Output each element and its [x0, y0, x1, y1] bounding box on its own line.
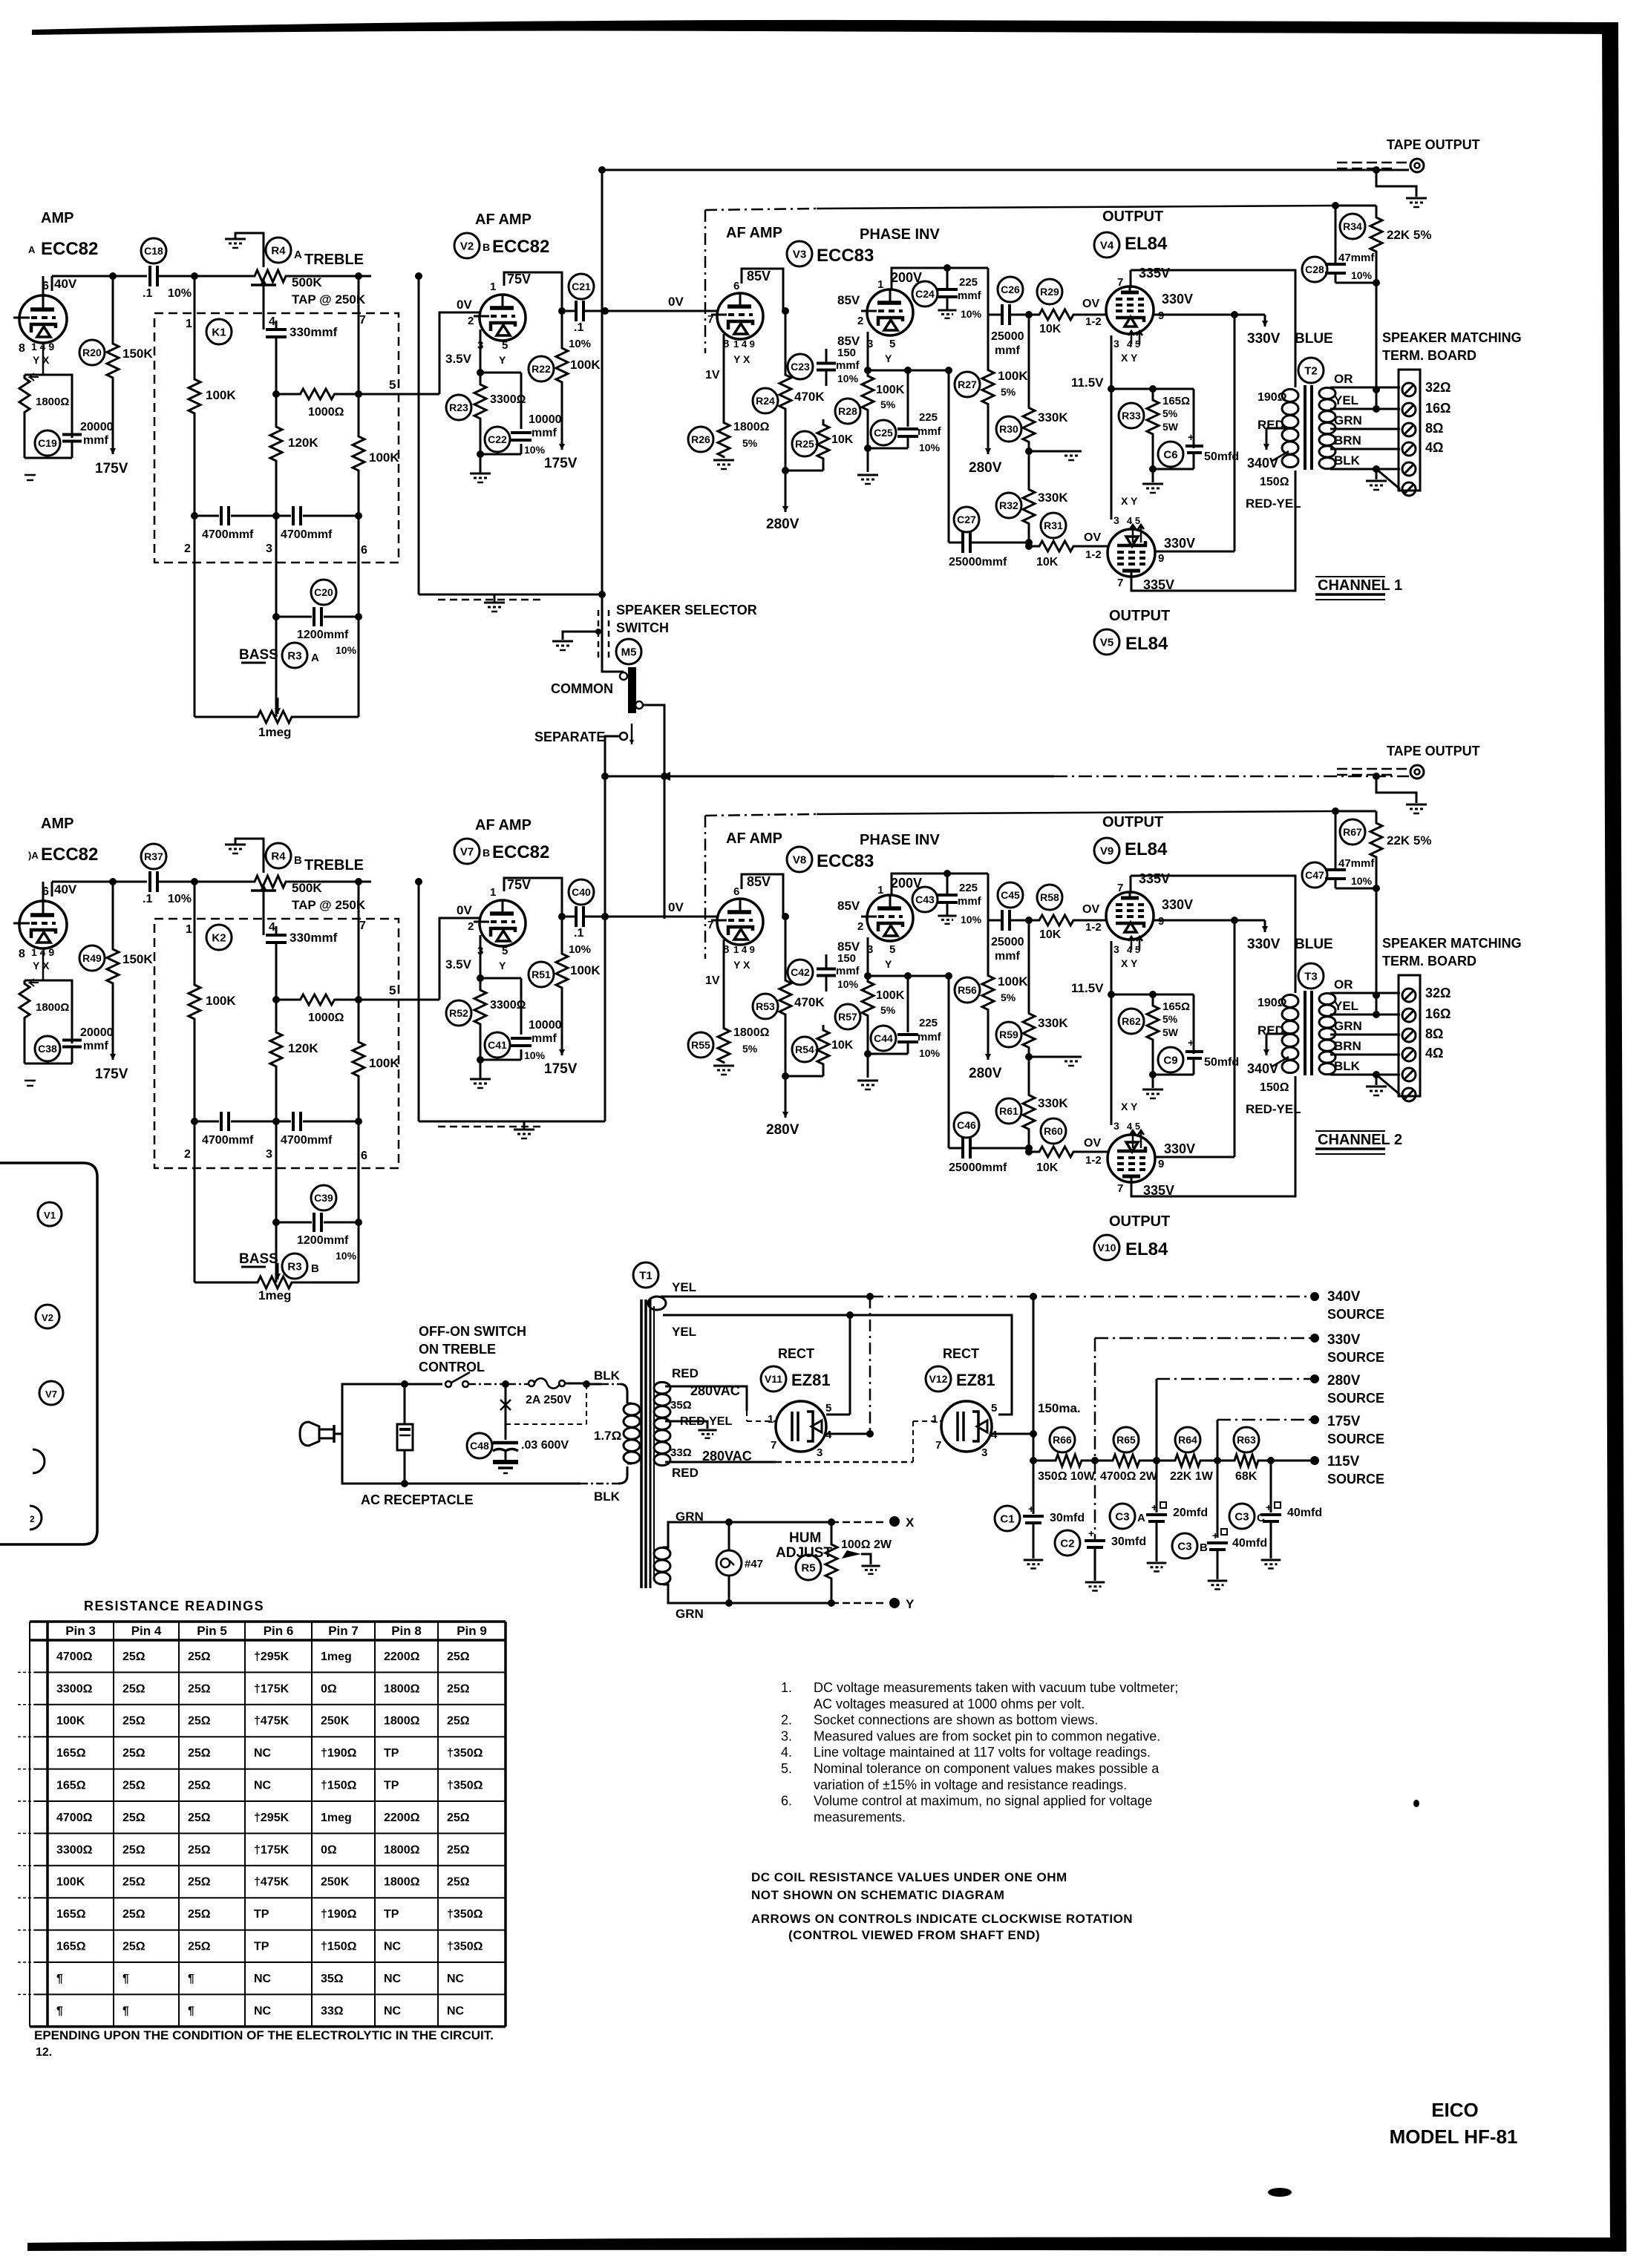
- svg-text:NC: NC: [254, 1780, 272, 1792]
- svg-text:V4: V4: [1100, 239, 1114, 252]
- svg-text:R56: R56: [958, 984, 977, 996]
- right border bar: [1602, 22, 1626, 2252]
- svg-text:C19: C19: [38, 437, 57, 449]
- svg-text:25Ω: 25Ω: [122, 1843, 145, 1856]
- svg-text:25Ω: 25Ω: [122, 1682, 145, 1695]
- capacitor 4700mmf (right): [276, 1121, 291, 1123]
- svg-text:B: B: [483, 241, 490, 253]
- wire V5 plate loop to transformer bottom: [1131, 471, 1295, 591]
- svg-text:1800Ω: 1800Ω: [36, 396, 69, 408]
- svg-text:R3: R3: [287, 1260, 301, 1273]
- svg-text:variation of ±15% in voltage a: variation of ±15% in voltage and resista…: [814, 1777, 1127, 1792]
- svg-text:190Ω: 190Ω: [1258, 391, 1287, 404]
- arrow to 175V: [112, 416, 114, 454]
- center tap RED-YEL + ground: [665, 1421, 707, 1429]
- svg-text:Y: Y: [499, 354, 506, 366]
- svg-text:165Ω: 165Ω: [56, 1747, 86, 1760]
- svg-text:C39: C39: [314, 1192, 333, 1204]
- svg-text:ECC82: ECC82: [492, 842, 549, 862]
- svg-text:10%: 10%: [336, 1250, 357, 1262]
- svg-text:TAPE OUTPUT: TAPE OUTPUT: [1387, 744, 1480, 758]
- svg-text:R55: R55: [691, 1039, 710, 1051]
- bottom border bar: [27, 2237, 1626, 2252]
- 340V rail: [870, 1296, 1315, 1298]
- wire pin1 leg: [194, 276, 196, 377]
- svg-text:TP: TP: [254, 1908, 269, 1921]
- switch M5 ref: [616, 639, 641, 664]
- X fuse marker: [500, 1400, 511, 1410]
- dashed link fuse to treble switch: [506, 1423, 586, 1425]
- svg-text:M5: M5: [621, 646, 637, 658]
- svg-text:+: +: [1188, 431, 1194, 444]
- svg-text:22K 5%: 22K 5%: [1387, 228, 1431, 242]
- resistor R59 330K: [1028, 920, 1030, 1010]
- svg-text:AMP: AMP: [41, 210, 73, 226]
- svg-text:C40: C40: [572, 886, 591, 898]
- svg-text:¶: ¶: [56, 2005, 63, 2017]
- svg-text:25Ω: 25Ω: [447, 1812, 470, 1824]
- svg-text:+: +: [1088, 1527, 1094, 1539]
- svg-text:ECC82: ECC82: [492, 237, 549, 257]
- svg-text:C27: C27: [957, 514, 976, 525]
- svg-text:100K: 100K: [206, 388, 236, 402]
- T1 core: [640, 1299, 643, 1588]
- arrow to 175V: [112, 1021, 114, 1060]
- svg-text:5: 5: [502, 945, 508, 957]
- svg-text:25Ω: 25Ω: [122, 1812, 145, 1824]
- resistor R52 3300&#937;: [474, 978, 486, 1036]
- svg-text:330V: 330V: [1164, 1141, 1195, 1156]
- svg-text:100K: 100K: [570, 963, 601, 977]
- svg-text:11.5V: 11.5V: [1071, 376, 1104, 390]
- svg-text:OR: OR: [1334, 977, 1353, 992]
- phase inv cathode network: [867, 332, 869, 370]
- svg-text:470K: 470K: [794, 390, 825, 404]
- tap wire to 6th terminal + ground: [1373, 465, 1380, 473]
- svg-text:SOURCE: SOURCE: [1327, 1432, 1384, 1446]
- svg-text:5: 5: [889, 338, 895, 350]
- svg-text:mmf: mmf: [995, 344, 1020, 357]
- svg-text:B: B: [294, 854, 302, 867]
- svg-text:5%: 5%: [742, 437, 758, 449]
- svg-text:10%: 10%: [524, 444, 546, 456]
- svg-text:6.: 6.: [781, 1794, 792, 1809]
- potentiometer R4 B TREBLE 500K: [251, 876, 290, 888]
- svg-text:340V: 340V: [1247, 1061, 1278, 1076]
- svg-text:mmf: mmf: [836, 965, 860, 977]
- svg-text:.1: .1: [574, 321, 583, 334]
- svg-text:OUTPUT: OUTPUT: [1109, 608, 1170, 624]
- svg-text:330mmf: 330mmf: [290, 325, 338, 339]
- svg-text:10K: 10K: [831, 433, 854, 446]
- svg-text:165Ω: 165Ω: [1162, 395, 1190, 407]
- screen bus vertical: [1234, 920, 1236, 1157]
- svg-text:(CONTROL VIEWED FROM SHAFT: (CONTROL VIEWED FROM SHAFT END): [788, 1928, 1040, 1942]
- primary center tap RED 340V: [1266, 1033, 1289, 1035]
- svg-text:25Ω: 25Ω: [122, 1876, 145, 1889]
- svg-text:X Y: X Y: [1121, 957, 1138, 969]
- svg-text:mmf: mmf: [918, 425, 942, 438]
- secondary tap BRN: [1330, 1054, 1400, 1056]
- primary center tap RED 340V: [1266, 427, 1289, 430]
- svg-text:OFF-ON SWITCH: OFF-ON SWITCH: [419, 1324, 526, 1339]
- svg-text:330K: 330K: [1038, 1096, 1068, 1110]
- cathode bus to lower tube: [1111, 994, 1113, 1125]
- svg-text:100K: 100K: [56, 1715, 85, 1728]
- svg-text:Pin 7: Pin 7: [328, 1624, 359, 1638]
- svg-text:OUTPUT: OUTPUT: [1102, 209, 1163, 225]
- resistor R65 4700ohm 2W: [1109, 1455, 1143, 1466]
- wire V4 plate stub: [1130, 270, 1132, 288]
- svg-text:RED-YEL: RED-YEL: [1246, 1102, 1301, 1116]
- svg-text:7: 7: [707, 919, 713, 931]
- GRN top wire to X: [663, 1522, 831, 1547]
- svg-text:+: +: [1212, 1530, 1218, 1541]
- svg-text:280V: 280V: [766, 517, 799, 532]
- cathode bottom wire + ground: [868, 448, 908, 450]
- svg-text:1: 1: [768, 1413, 774, 1426]
- filter capacitor C3A 20mfd: [1156, 1461, 1157, 1510]
- tape terminal ground loop: [1373, 773, 1380, 780]
- svg-text:mmf: mmf: [83, 434, 108, 447]
- resistor R63 68K: [1231, 1455, 1262, 1466]
- wire input cathode into jack box: [42, 951, 45, 980]
- wire input plate to C18 / treble bus: [42, 276, 45, 295]
- svg-text:C46: C46: [957, 1119, 976, 1131]
- svg-text:CHANNEL 2: CHANNEL 2: [1318, 1132, 1402, 1148]
- svg-text:2A 250V: 2A 250V: [526, 1394, 572, 1406]
- svg-text:25Ω: 25Ω: [122, 1747, 145, 1760]
- svg-text:C3: C3: [1234, 1510, 1249, 1523]
- svg-text:5%: 5%: [1162, 407, 1178, 419]
- svg-text:OUTPUT: OUTPUT: [1109, 1213, 1170, 1230]
- resistor 100K (K-net pin1): [189, 983, 200, 1021]
- wire bottom BLK: [405, 1483, 581, 1485]
- svg-text:4: 4: [269, 921, 275, 934]
- capacitor C46 25000mmf (bottom coupling): [1028, 1148, 1030, 1152]
- svg-text:R54: R54: [795, 1043, 814, 1055]
- svg-text:4700Ω 2W: 4700Ω 2W: [1100, 1470, 1158, 1483]
- svg-text:Pin 8: Pin 8: [391, 1624, 422, 1638]
- svg-text:25Ω: 25Ω: [188, 1715, 211, 1728]
- tube V11 EZ81 rectifier: [776, 1401, 826, 1452]
- svg-text:EL84: EL84: [1125, 234, 1168, 254]
- svg-text:470K: 470K: [794, 995, 825, 1009]
- svg-text:R53: R53: [756, 1000, 775, 1012]
- resistor 1800&#937; (input, cut): [19, 980, 30, 1021]
- svg-text:190Ω: 190Ω: [1258, 997, 1287, 1009]
- svg-text:20mfd: 20mfd: [1173, 1507, 1208, 1519]
- arrow to 175V (V2B): [561, 386, 563, 450]
- resistor R55 1800&#937; 5%: [718, 1027, 730, 1063]
- svg-text:RED-YEL: RED-YEL: [1246, 496, 1301, 511]
- svg-text:1.7Ω: 1.7Ω: [594, 1429, 621, 1443]
- svg-text:Y: Y: [499, 960, 506, 971]
- svg-text:R25: R25: [795, 438, 814, 450]
- T1 YEL winding (heater): [648, 1297, 666, 1310]
- svg-text:RECT: RECT: [778, 1346, 814, 1361]
- svg-text:4700mmf: 4700mmf: [281, 1134, 333, 1147]
- svg-text:A: A: [1137, 1512, 1145, 1524]
- ground (V3 cathode): [713, 1065, 734, 1067]
- wires down to bass network: [194, 516, 196, 717]
- svg-text:6: 6: [733, 280, 739, 292]
- secondary tap OR: [1330, 387, 1400, 389]
- svg-text:R52: R52: [449, 1007, 468, 1019]
- svg-text:EL84: EL84: [1125, 839, 1168, 859]
- svg-text:C44: C44: [874, 1032, 893, 1044]
- transformer T3 (output): [1298, 963, 1324, 989]
- svg-text:Y X: Y X: [733, 353, 750, 365]
- capacitor C22 10000mmf: [520, 373, 523, 429]
- tube circle V7: [39, 1381, 63, 1405]
- svg-text:85V: 85V: [837, 334, 860, 348]
- svg-text:330V: 330V: [1162, 292, 1193, 307]
- svg-text:T3: T3: [1304, 970, 1318, 983]
- svg-text:120K: 120K: [288, 1041, 318, 1055]
- svg-text:5%: 5%: [742, 1043, 758, 1055]
- svg-text:100K: 100K: [876, 384, 905, 396]
- svg-text:X Y: X Y: [1121, 495, 1138, 507]
- svg-text:165Ω: 165Ω: [56, 1941, 86, 1953]
- svg-text:C21: C21: [572, 281, 591, 292]
- wire separate contact to ch2 junction: [605, 736, 620, 776]
- svg-text:R3: R3: [287, 649, 301, 662]
- tube V6A ECC82 (input AF amp, cut at page edge): [19, 901, 67, 948]
- svg-text:1: 1: [186, 318, 192, 330]
- svg-text:175V: 175V: [95, 1066, 128, 1082]
- svg-text:25Ω: 25Ω: [188, 1780, 211, 1792]
- svg-text:25000: 25000: [991, 936, 1024, 948]
- capacitor 330mmf: [275, 926, 277, 931]
- svg-text:25Ω: 25Ω: [447, 1651, 470, 1663]
- svg-text:C38: C38: [38, 1043, 57, 1055]
- svg-text:100K: 100K: [56, 1876, 85, 1889]
- svg-text:330K: 330K: [1038, 410, 1068, 425]
- tube circle V1: [38, 1202, 62, 1226]
- GRN bottom wire to Y: [663, 1584, 831, 1603]
- svg-text:340V: 340V: [1327, 1289, 1361, 1305]
- tube V9 EL84 upper output pentode: [1106, 892, 1154, 940]
- svg-text:BRN: BRN: [1334, 1039, 1361, 1053]
- svg-text:85V: 85V: [747, 874, 771, 889]
- svg-text:30mfd: 30mfd: [1111, 1536, 1146, 1548]
- wire pin7 leg: [358, 276, 360, 434]
- svg-text:TERM. BOARD: TERM. BOARD: [1382, 954, 1476, 969]
- svg-text:32Ω: 32Ω: [1425, 986, 1451, 1000]
- capacitor C21 .1 10%: [575, 301, 578, 321]
- svg-text:DC COIL RESISTANCE VALUES: DC COIL RESISTANCE VALUES UNDER ONE OHM: [751, 1870, 1067, 1884]
- svg-text:R26: R26: [691, 433, 710, 445]
- svg-text:+: +: [1151, 1501, 1157, 1513]
- svg-text:†350Ω: †350Ω: [447, 1747, 483, 1760]
- svg-text:Pin 9: Pin 9: [457, 1624, 487, 1638]
- svg-text:3: 3: [266, 1148, 272, 1161]
- treble bus wire: [157, 881, 251, 883]
- svg-text:35Ω: 35Ω: [321, 1973, 344, 1985]
- svg-text:X Y: X Y: [1121, 352, 1138, 364]
- svg-text:85V: 85V: [837, 293, 860, 307]
- svg-text:330V: 330V: [1327, 1332, 1361, 1348]
- T1 HV secondary RED/280VAC: [654, 1382, 670, 1393]
- svg-text:85V: 85V: [837, 899, 860, 913]
- svg-text:TP: TP: [384, 1908, 399, 1921]
- svg-text:100K: 100K: [998, 974, 1028, 989]
- svg-text:AF AMP: AF AMP: [726, 225, 782, 241]
- svg-text:BRN: BRN: [1334, 433, 1361, 448]
- svg-text:V1: V1: [44, 1210, 56, 1221]
- svg-text:C26: C26: [1001, 283, 1020, 295]
- svg-text:R32: R32: [999, 499, 1018, 511]
- 280VAC top wire: [665, 1386, 747, 1411]
- svg-text:225: 225: [919, 411, 938, 424]
- svg-text:10%: 10%: [168, 287, 192, 300]
- resistor R51 100K (plate load): [556, 917, 568, 992]
- svg-text:100Ω 2W: 100Ω 2W: [841, 1538, 892, 1551]
- svg-text:1-2: 1-2: [1085, 921, 1102, 934]
- svg-text:120K: 120K: [288, 436, 318, 450]
- svg-text:25Ω: 25Ω: [188, 1812, 211, 1824]
- capacitor C48 .03 600V: [502, 1380, 509, 1388]
- svg-text:1200mmf: 1200mmf: [297, 1234, 349, 1247]
- svg-text:V2: V2: [460, 240, 474, 252]
- capacitor C38 20000mmf: [24, 980, 72, 1043]
- svg-text:R22: R22: [532, 363, 551, 375]
- arrow 330V stub: [1234, 314, 1265, 316]
- resistor R23 3300&#937;: [474, 373, 486, 430]
- divider mid + ground wire: [1025, 1053, 1033, 1061]
- tube V1A ECC82 (input AF amp, cut at page edge): [19, 295, 67, 343]
- svg-text:R34: R34: [1343, 220, 1362, 232]
- svg-text:8Ω: 8Ω: [1425, 421, 1443, 436]
- svg-text:25Ω: 25Ω: [188, 1682, 211, 1695]
- svg-text:330V: 330V: [1164, 536, 1195, 551]
- svg-text:V10: V10: [1098, 1242, 1116, 1253]
- svg-text:7: 7: [1117, 276, 1123, 289]
- capacitor C18 .1 10%: [148, 266, 151, 286]
- svg-text:75V: 75V: [507, 272, 531, 286]
- svg-text:2: 2: [857, 920, 863, 933]
- svg-text:3: 3: [1113, 514, 1119, 526]
- capacitor C40 .1 10%: [575, 906, 578, 927]
- terminal screw 1: [1402, 989, 1416, 1002]
- terminal screw 3: [1402, 423, 1416, 436]
- capacitor C9 50mfd (electrolytic): [1158, 1047, 1183, 1072]
- secondary tap YEL: [1330, 408, 1400, 410]
- svg-text:¶: ¶: [188, 1973, 194, 1985]
- svg-text:1-2: 1-2: [1085, 1154, 1102, 1167]
- svg-text:8: 8: [19, 948, 25, 960]
- cathode bottom + ground: [480, 453, 521, 456]
- svg-text:¶: ¶: [188, 2005, 194, 2017]
- svg-text:280V: 280V: [969, 1066, 1002, 1081]
- svg-text:C1: C1: [1000, 1512, 1014, 1525]
- capacitor 4700mmf (right): [276, 515, 291, 517]
- svg-text:330K: 330K: [1038, 1016, 1068, 1030]
- svg-text:225: 225: [959, 882, 978, 894]
- ground stub (input): [24, 1080, 36, 1082]
- resistor R26 1800&#937; 5%: [718, 422, 730, 458]
- resistor R27 100K 5%: [987, 315, 989, 367]
- tube V3 AF amp triode: [717, 293, 763, 339]
- svg-text:†475K: †475K: [254, 1715, 290, 1728]
- svg-text:V5: V5: [1100, 636, 1113, 649]
- svg-text:2: 2: [468, 315, 474, 327]
- svg-text:330V: 330V: [1247, 331, 1281, 347]
- svg-text:10%: 10%: [961, 308, 982, 320]
- svg-text:22K 1W: 22K 1W: [1170, 1470, 1214, 1483]
- wire V5 grid from R31: [1109, 1151, 1111, 1153]
- svg-text:12.: 12.: [36, 2046, 52, 2059]
- tap wire to 6th terminal + ground: [1373, 1071, 1380, 1078]
- wire coupling to AF amp grid: [605, 310, 717, 312]
- svg-text:10%: 10%: [524, 1049, 546, 1061]
- tape output line: [605, 776, 1054, 778]
- svg-text:3300Ω: 3300Ω: [56, 1843, 93, 1856]
- svg-text:SPEAKER SELECTOR: SPEAKER SELECTOR: [616, 603, 757, 617]
- svg-text:30mfd: 30mfd: [1050, 1512, 1085, 1524]
- wire V5 grid from R31: [1109, 545, 1111, 547]
- ground stub (input): [24, 474, 36, 476]
- 115V rail with dropping resistors: [1033, 1460, 1052, 1462]
- svg-text:BLK: BLK: [1334, 453, 1361, 468]
- svg-text:AC RECEPTACLE: AC RECEPTACLE: [361, 1492, 474, 1507]
- svg-text:¶: ¶: [122, 1973, 129, 1985]
- svg-text:BLUE: BLUE: [1295, 937, 1333, 952]
- cathode bottom + ground: [480, 1059, 521, 1061]
- tube V3 phase inverter triode: [867, 289, 913, 335]
- resistor 100K (K-net pin7): [353, 434, 364, 473]
- svg-text:115V: 115V: [1327, 1454, 1360, 1469]
- svg-text:B: B: [311, 1262, 319, 1275]
- resistor R67 22K 5% (feedback): [1332, 807, 1339, 815]
- svg-text:PHASE INV: PHASE INV: [860, 226, 940, 243]
- wire pin1 leg: [194, 882, 196, 983]
- svg-text:Volume control at maximum, no: Volume control at maximum, no signal app…: [814, 1794, 1152, 1809]
- svg-text:EZ81: EZ81: [791, 1371, 831, 1389]
- svg-text:175V: 175V: [544, 1061, 578, 1077]
- svg-text:R23: R23: [449, 402, 468, 413]
- svg-text:Nominal tolerance on component: Nominal tolerance on component values ma…: [814, 1761, 1160, 1776]
- svg-text:250K: 250K: [321, 1715, 350, 1728]
- svg-text:R60: R60: [1044, 1125, 1063, 1137]
- svg-text:11.5V: 11.5V: [1071, 981, 1104, 995]
- svg-text:YEL: YEL: [672, 1280, 696, 1294]
- svg-text:6: 6: [361, 544, 367, 557]
- svg-text:100K: 100K: [206, 994, 236, 1008]
- svg-text:5: 5: [889, 943, 895, 956]
- svg-text:280V: 280V: [1327, 1373, 1361, 1389]
- svg-text:3: 3: [1113, 338, 1119, 350]
- svg-text:1: 1: [932, 1413, 938, 1426]
- terminal screw 4: [1402, 1048, 1416, 1061]
- svg-text:165Ω: 165Ω: [56, 1908, 86, 1921]
- svg-text:R20: R20: [82, 347, 102, 358]
- svg-text:4: 4: [269, 315, 275, 328]
- svg-text:150: 150: [837, 347, 856, 359]
- svg-text:†295K: †295K: [254, 1651, 290, 1663]
- svg-text:1: 1: [877, 884, 883, 897]
- wire plate junction to C21: [558, 913, 566, 920]
- resistor R22 100K (plate load): [556, 311, 568, 386]
- tape output line: [605, 169, 1409, 171]
- svg-text:mmf: mmf: [532, 427, 557, 439]
- svg-text:10%: 10%: [919, 442, 941, 453]
- resistor R29 10K (grid stopper top): [1025, 311, 1033, 318]
- svg-text:5%: 5%: [1162, 1013, 1178, 1025]
- svg-text:25000: 25000: [991, 330, 1024, 343]
- svg-text:+: +: [1028, 1503, 1034, 1515]
